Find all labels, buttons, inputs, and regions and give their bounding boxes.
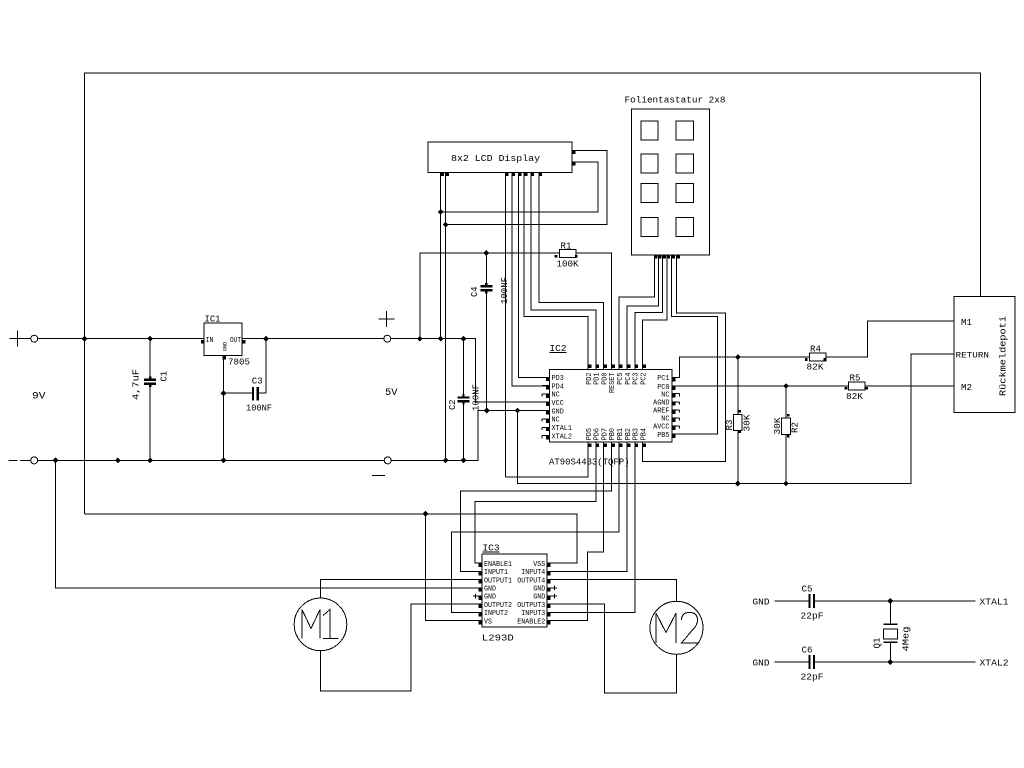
wire 9V+ frame left down to VS line <box>84 339 86 514</box>
wire keypad w1 to PC5 <box>619 255 654 364</box>
svg-text:AT90S4433(TQFP): AT90S4433(TQFP) <box>549 458 630 468</box>
IC3 right pins VSS INPUT4 OUTPUT4 GND GND OUTPUT3 INPUT3 ENABLE2 <box>547 564 551 568</box>
svg-text:Q1: Q1 <box>873 638 883 649</box>
svg-text:PB4: PB4 <box>640 428 648 441</box>
svg-text:AREF: AREF <box>653 408 670 416</box>
svg-text:100NF: 100NF <box>472 384 482 411</box>
svg-text:PD5: PD5 <box>586 428 594 441</box>
wire C1 bottom <box>149 384 151 461</box>
IC2 bottom pins PD5 PD6 PD7 PB0 PB1 PB2 PB3 PB4 <box>588 444 592 448</box>
svg-text:C1: C1 <box>160 371 170 382</box>
wire GND to C5 <box>775 600 810 602</box>
svg-text:OUT: OUT <box>230 337 241 345</box>
wire C4 top <box>485 253 487 287</box>
svg-text:INPUT2: INPUT2 <box>484 610 508 618</box>
svg-text:PD4: PD4 <box>552 383 565 391</box>
wire IC3 GND to GND rail <box>56 460 482 587</box>
junction 5V rail / LCD wire A <box>438 336 444 342</box>
wire OUTPUT3 to M2 bottom <box>547 604 676 693</box>
wire keypad w4 to PC2 <box>643 255 667 364</box>
junction GND rail / C1 <box>147 458 153 464</box>
box 8x2 LCD Display <box>428 142 572 173</box>
terminal 5V plus symbol <box>379 311 395 327</box>
wire PC0 net to R5 and M2 pin <box>672 385 849 387</box>
svg-text:100NF: 100NF <box>500 277 510 304</box>
box Rueckmeldeopti <box>954 297 1015 413</box>
svg-text:GND: GND <box>221 341 228 351</box>
svg-text:4Meg: 4Meg <box>902 627 912 652</box>
wire OUTPUT4 to M2 top <box>547 580 676 602</box>
svg-text:PC4: PC4 <box>625 372 633 385</box>
junction GND rail / LCD wire B <box>443 458 449 464</box>
wire LCD w2 to PD4 <box>512 173 549 387</box>
IC2 top pins PD2 PD1 PD0 RESET PC5 PC4 PC3 PC2 <box>588 365 592 369</box>
wire R2 top <box>785 386 787 418</box>
svg-text:NC: NC <box>661 416 670 424</box>
wire GND branch to R3 R2 RETURN <box>518 354 954 484</box>
svg-text:82K: 82K <box>807 363 825 373</box>
junction XTAL1 / Q1 <box>887 598 893 604</box>
wire LCD w4 to PD2 <box>524 173 588 365</box>
wire PB1 to IC3 INPUT2 <box>452 448 620 613</box>
svg-text:R5: R5 <box>850 374 861 384</box>
wire Q1 top <box>889 601 891 624</box>
wire OUTPUT1 to M1 top <box>321 580 482 599</box>
svg-text:IC1: IC1 <box>205 314 221 324</box>
svg-text:NC: NC <box>552 417 561 425</box>
svg-text:R2: R2 <box>791 422 801 433</box>
svg-text:ENABLE2: ENABLE2 <box>517 618 545 626</box>
svg-text:Rückmeldepoti: Rückmeldepoti <box>999 316 1009 396</box>
junction 5V rail / C2 <box>461 336 467 342</box>
wire R1 net from 5V rail to RESET <box>420 253 560 339</box>
wire C5 to XTAL1 <box>814 600 976 602</box>
wire C4 bottom <box>485 290 487 410</box>
svg-text:GND: GND <box>484 586 496 594</box>
svg-text:L293D: L293D <box>482 634 514 644</box>
junction LCD wire A loop <box>438 209 444 215</box>
wire 9V VS line <box>85 514 577 563</box>
svg-text:NC: NC <box>661 391 670 399</box>
wire keypad w3 to PC3 <box>635 255 663 364</box>
svg-text:NC: NC <box>552 392 561 400</box>
wire PB3 to IC3 INPUT3 <box>547 448 635 613</box>
svg-text:C6: C6 <box>802 646 813 656</box>
wire IC1 GND down <box>223 356 225 461</box>
svg-text:100K: 100K <box>557 260 580 270</box>
wire 9V- terminal stub <box>20 459 31 461</box>
capacitor C6 22pF <box>808 655 810 669</box>
wire LCD w6 to PD0 <box>539 173 604 365</box>
wire 9V+ rail left <box>38 338 204 340</box>
svg-text:22pF: 22pF <box>801 673 824 683</box>
junction R1 line / C4 <box>483 250 489 256</box>
svg-text:GND: GND <box>552 408 565 416</box>
svg-text:PB0: PB0 <box>609 428 617 441</box>
IC3 left pins ENABLE1 INPUT1 OUTPUT1 GND GND OUTPUT2 INPUT2 VS <box>478 564 482 568</box>
junction GND branch / R2 <box>783 481 789 487</box>
svg-text:R3: R3 <box>725 420 735 431</box>
node 5V plus terminal circle <box>384 335 391 342</box>
svg-text:VS: VS <box>484 618 492 626</box>
svg-text:C2: C2 <box>448 400 458 411</box>
resistor R5 82K <box>849 382 866 390</box>
wire OUTPUT2 to M1 bottom <box>321 604 482 691</box>
svg-text:5V: 5V <box>385 388 398 399</box>
svg-text:RESET: RESET <box>609 372 617 393</box>
svg-text:PD7: PD7 <box>601 428 609 440</box>
junction GND rail x55 <box>53 458 59 464</box>
svg-text:GND: GND <box>753 598 770 608</box>
svg-text:Folientastatur 2x8: Folientastatur 2x8 <box>625 96 726 106</box>
svg-text:R1: R1 <box>561 242 572 252</box>
wire C2 bottom <box>463 401 465 460</box>
svg-text:100NF: 100NF <box>246 404 272 414</box>
resistor R1 100K <box>560 249 576 257</box>
svg-text:GND: GND <box>753 659 770 669</box>
junction GND branch / R3 <box>735 481 741 487</box>
wire LCD right lower loop <box>441 162 598 212</box>
wire keypad w6 to PB4 <box>643 255 726 462</box>
svg-text:PB5: PB5 <box>657 432 670 440</box>
wire LCD w5 to PD1 <box>531 173 596 365</box>
wire PD7 to IC3 ENABLE2 <box>547 448 603 621</box>
wire LCD w3 to PD3 <box>518 173 549 378</box>
svg-text:OUTPUT3: OUTPUT3 <box>517 602 545 610</box>
wire INPUT4 to PB2 <box>547 570 627 572</box>
voltage regulator IC1 7805 <box>204 323 242 356</box>
svg-text:PD3: PD3 <box>552 375 565 383</box>
wire PB2 to IC3 INPUT4 <box>547 448 627 572</box>
terminal 9V plus symbol <box>10 331 26 347</box>
svg-text:INPUT4: INPUT4 <box>521 569 545 577</box>
wire LCD right upper loop <box>446 150 607 224</box>
box Folientastatur keypad <box>632 109 710 255</box>
wire 9V+ frame loop <box>85 73 981 339</box>
svg-text:7805: 7805 <box>228 358 250 368</box>
svg-text:VCC: VCC <box>552 400 565 408</box>
junction PC1 line / R3 <box>735 354 741 360</box>
microcontroller IC2 AT90S4433 TQFP <box>549 370 672 442</box>
terminal 9V minus symbol <box>9 459 18 461</box>
junction 5V rail / C3 branch <box>263 336 269 342</box>
svg-text:PC2: PC2 <box>640 372 648 385</box>
wire C2 top <box>463 339 465 398</box>
svg-text:C3: C3 <box>252 376 263 386</box>
svg-text:XTAL1: XTAL1 <box>552 425 573 433</box>
svg-text:C4: C4 <box>470 287 480 298</box>
node 9V minus terminal circle <box>31 457 38 464</box>
wire VS branch down <box>425 514 481 621</box>
svg-text:GND: GND <box>533 594 545 602</box>
svg-text:AVCC: AVCC <box>653 424 670 432</box>
wire LCD pin B to GND rail <box>445 173 447 461</box>
svg-text:9V: 9V <box>32 392 46 403</box>
wire GND rail <box>38 411 550 461</box>
svg-text:30K: 30K <box>743 414 753 432</box>
svg-text:R4: R4 <box>810 344 821 354</box>
junction GND rail x118 <box>115 458 121 464</box>
svg-text:OUTPUT4: OUTPUT4 <box>517 577 545 585</box>
svg-text:PB3: PB3 <box>633 428 641 441</box>
wire PC1 net to R4 and M1 pin <box>672 357 809 377</box>
svg-text:C5: C5 <box>802 585 813 595</box>
node 5V minus terminal circle <box>384 457 391 464</box>
svg-text:INPUT3: INPUT3 <box>521 610 545 618</box>
wire GND to C6 <box>775 661 810 663</box>
junction 9V+ rail / frame <box>82 336 88 342</box>
wire 9V+ terminal stub <box>26 338 31 340</box>
junction 9V+ rail / C1 <box>147 336 153 342</box>
junction XTAL2 / Q1 <box>887 659 893 665</box>
wire keypad w5 to PB5 <box>672 255 718 434</box>
junction GND line / C4 <box>484 408 490 414</box>
motor M1 <box>294 598 347 651</box>
wire keypad w2 to PC4 <box>627 255 659 364</box>
node 9V plus terminal circle <box>31 335 38 342</box>
wire C6 to XTAL2 <box>814 661 976 663</box>
svg-text:GND: GND <box>533 586 545 594</box>
IC2 left pins PD3 PD4 NC VCC GND NC XTAL1 XTAL2 <box>546 378 550 382</box>
terminal 5V minus symbol <box>372 475 385 477</box>
junction LCD wire B loop <box>443 222 449 228</box>
svg-text:PB2: PB2 <box>625 428 633 441</box>
wire VSS link <box>547 562 557 564</box>
wire PD6 to IC3 ENABLE1 <box>475 448 596 564</box>
wire 5V rail <box>242 339 549 403</box>
svg-text:RETURN: RETURN <box>956 352 990 361</box>
junction IC1 GND wire / C3 <box>221 390 227 396</box>
svg-text:PC5: PC5 <box>617 372 625 385</box>
wire PB0 to IC3 INPUT1 <box>461 448 612 572</box>
capacitor C5 22pF <box>808 594 810 608</box>
svg-text:OUTPUT1: OUTPUT1 <box>484 577 512 585</box>
svg-text:IN: IN <box>206 337 214 345</box>
svg-text:VSS: VSS <box>533 561 545 569</box>
svg-text:22pF: 22pF <box>801 612 824 622</box>
wire PD5 to LCD w1 <box>505 448 588 478</box>
svg-text:XTAL2: XTAL2 <box>552 433 573 441</box>
wire C3 left <box>224 392 252 394</box>
svg-text:M1: M1 <box>961 318 972 328</box>
wire PB5 to keypad w5 <box>672 433 682 435</box>
junction PC0 line / R2 <box>783 383 789 389</box>
wire R2 bottom <box>785 435 787 484</box>
svg-text:4,7uF: 4,7uF <box>132 369 142 400</box>
svg-text:ENABLE1: ENABLE1 <box>484 561 512 569</box>
resistor R4 82K <box>809 353 826 361</box>
svg-text:XTAL1: XTAL1 <box>980 598 1009 608</box>
svg-text:8x2 LCD Display: 8x2 LCD Display <box>451 154 541 164</box>
wire C1 top <box>149 339 151 380</box>
IC2 right pins PC1 PC0 NC AGND AREF NC AVCC PB5 <box>672 378 676 382</box>
svg-text:PC3: PC3 <box>633 372 641 385</box>
svg-text:30K: 30K <box>773 417 783 435</box>
svg-text:82K: 82K <box>846 392 864 402</box>
svg-text:PD2: PD2 <box>586 372 594 385</box>
svg-text:PD0: PD0 <box>601 372 609 385</box>
motor M2 <box>650 601 703 654</box>
svg-text:PD1: PD1 <box>594 372 602 385</box>
junction 5V rail / R1-C4 branch <box>417 336 423 342</box>
junction VS line branch <box>423 511 429 517</box>
svg-text:PB1: PB1 <box>617 428 625 441</box>
svg-text:PD6: PD6 <box>594 428 602 441</box>
motor driver IC3 L293D <box>482 554 547 627</box>
svg-text:GND: GND <box>484 594 496 602</box>
wire R3 bottom <box>737 431 739 484</box>
svg-text:M2: M2 <box>961 383 972 393</box>
svg-text:PC1: PC1 <box>657 375 670 383</box>
svg-text:INPUT1: INPUT1 <box>484 569 508 577</box>
junction GND rail / C2 <box>461 458 467 464</box>
wire LCD w1 to PD5 line <box>504 173 506 477</box>
svg-text:AGND: AGND <box>653 400 670 408</box>
wire R3 top <box>737 357 739 414</box>
svg-text:XTAL2: XTAL2 <box>980 659 1009 669</box>
wire C3 right <box>259 339 266 394</box>
wire LCD pin A to 5V rail <box>440 173 442 339</box>
svg-text:OUTPUT2: OUTPUT2 <box>484 602 512 610</box>
junction GND line / R-pulldown branch <box>515 408 521 414</box>
junction GND rail / IC1 GND <box>221 458 227 464</box>
wire Q1 bottom <box>889 642 891 662</box>
